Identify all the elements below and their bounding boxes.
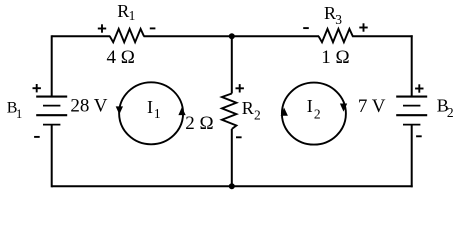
wire: right lower (B2 - to bottom) bbox=[411, 125, 413, 188]
polarity - of R2 bbox=[236, 136, 242, 138]
svg-text:7 V: 7 V bbox=[358, 96, 386, 117]
wire: left lower (B1 - to bottom) bbox=[51, 125, 53, 188]
polarity + of B1 bbox=[33, 84, 41, 92]
polarity - of R3 bbox=[303, 27, 309, 29]
node: bottom junction bbox=[229, 183, 235, 189]
mesh current loop I1 (counter-clockwise circle) bbox=[116, 82, 186, 144]
node: top junction bbox=[229, 33, 235, 39]
resistor R3 bbox=[319, 3, 353, 42]
polarity - of R1 bbox=[150, 27, 156, 29]
svg-text:R: R bbox=[117, 1, 129, 21]
polarity + of R1 bbox=[98, 24, 106, 32]
wire: middle branch lower (R2 to bottom node) bbox=[231, 129, 233, 186]
svg-text:I: I bbox=[147, 97, 153, 117]
polarity - of B2 bbox=[416, 135, 422, 137]
label B2 bbox=[437, 96, 454, 120]
battery B1 bbox=[36, 97, 67, 125]
svg-text:1: 1 bbox=[129, 8, 136, 23]
mesh current loop I2 (clockwise circle) bbox=[281, 83, 348, 145]
svg-text:2: 2 bbox=[254, 107, 261, 122]
svg-text:1 Ω: 1 Ω bbox=[321, 47, 349, 68]
wire: right upper (to B2 +) bbox=[411, 35, 413, 96]
battery B2 bbox=[396, 97, 427, 125]
wire: middle branch upper (node to R2) bbox=[231, 36, 233, 93]
svg-text:4 Ω: 4 Ω bbox=[107, 47, 135, 68]
svg-text:2: 2 bbox=[447, 105, 454, 120]
svg-text:1: 1 bbox=[16, 107, 22, 121]
polarity + of R2 bbox=[236, 84, 244, 92]
resistor R2 bbox=[222, 94, 261, 130]
wire: bottom rail bbox=[52, 185, 413, 187]
wire: top right (node to R3) bbox=[231, 35, 319, 37]
svg-text:2 Ω: 2 Ω bbox=[185, 113, 213, 134]
polarity - of B1 bbox=[34, 136, 40, 138]
wire: top middle (R1 to node) bbox=[144, 35, 233, 37]
svg-text:R: R bbox=[242, 98, 254, 118]
svg-text:3: 3 bbox=[335, 12, 342, 27]
resistor R1 bbox=[110, 1, 144, 42]
wire: top left (battery B1 to R1) bbox=[52, 35, 111, 37]
wire: left upper (to B1 +) bbox=[51, 35, 53, 96]
label B1 bbox=[7, 99, 22, 121]
polarity + of R3 bbox=[359, 23, 367, 31]
polarity + of B2 bbox=[415, 84, 423, 92]
svg-text:28 V: 28 V bbox=[70, 96, 107, 117]
svg-text:I: I bbox=[307, 96, 313, 116]
wire: top far right (R3 to B2) bbox=[352, 35, 413, 37]
svg-text:2: 2 bbox=[314, 107, 321, 122]
svg-text:1: 1 bbox=[154, 106, 161, 121]
